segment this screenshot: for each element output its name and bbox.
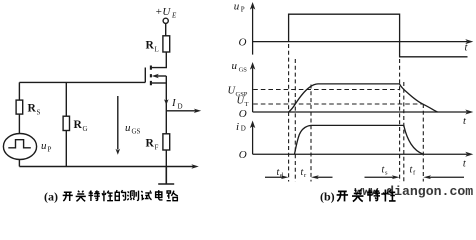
dashed level U_GSP xyxy=(253,89,399,91)
resistor RS xyxy=(16,100,23,114)
bottom rail wire xyxy=(19,166,194,168)
svg-text:G: G xyxy=(83,125,88,133)
svg-text:s: s xyxy=(385,170,388,177)
dashed vertical t_s end xyxy=(403,82,405,182)
svg-text:R: R xyxy=(146,138,155,150)
svg-text:GS: GS xyxy=(132,128,141,136)
plot2 uGS y-axis xyxy=(252,68,254,112)
measure arrow t_f right xyxy=(428,176,464,178)
wire RL to drain corner xyxy=(152,52,167,68)
svg-text:f: f xyxy=(413,170,416,177)
wire RG to bottom rail xyxy=(65,131,67,167)
ground xyxy=(158,167,174,185)
transistor VT body lead with arrow xyxy=(157,75,167,77)
svg-text:S: S xyxy=(37,109,41,117)
svg-text:t: t xyxy=(463,159,467,170)
transistor VT gate plate xyxy=(144,68,146,83)
transistor VT channel bars xyxy=(150,66,152,86)
svg-text:i: i xyxy=(236,121,239,133)
plot1 uP y-axis xyxy=(252,7,254,55)
plot1 uP x-axis xyxy=(253,41,467,43)
plot2 uGS x-axis xyxy=(253,111,467,113)
iD curve xyxy=(295,125,424,154)
svg-text:P: P xyxy=(241,6,245,14)
resistor RF xyxy=(163,134,170,150)
wire source down to RF xyxy=(165,76,167,134)
uP pulse trace xyxy=(289,14,468,57)
svg-text:+U: +U xyxy=(155,6,171,18)
resistor RG xyxy=(63,116,69,130)
svg-text:L: L xyxy=(155,46,159,54)
svg-text:t: t xyxy=(463,116,467,127)
dashed level U_T xyxy=(253,103,423,105)
svg-text:u: u xyxy=(41,140,47,152)
svg-text:R: R xyxy=(28,103,37,115)
wire rail to RS xyxy=(18,82,20,100)
resistor RL xyxy=(163,36,170,52)
svg-text:P: P xyxy=(48,146,52,154)
svg-text:O: O xyxy=(239,149,247,161)
svg-text:www.diangon.com: www.diangon.com xyxy=(355,184,474,199)
svg-text:O: O xyxy=(239,108,247,120)
svg-text:t: t xyxy=(465,42,469,53)
wire pulse source to bottom rail xyxy=(18,160,20,167)
dashed vertical t1 pulse rise xyxy=(288,44,290,182)
plot3 iD y-axis xyxy=(252,126,254,155)
svg-text:O: O xyxy=(239,36,247,48)
svg-text:(b): (b) xyxy=(320,190,335,204)
wire supply to RL xyxy=(165,24,167,36)
svg-text:I: I xyxy=(171,97,177,109)
svg-text:R: R xyxy=(146,40,155,52)
dashed vertical t_f end xyxy=(422,104,424,182)
svg-text:u: u xyxy=(125,122,131,134)
measure arrow t_r right xyxy=(316,176,333,178)
uGS curve xyxy=(289,84,438,112)
svg-text:GS: GS xyxy=(239,66,248,73)
svg-text:u: u xyxy=(234,1,240,13)
svg-text:F: F xyxy=(155,144,159,152)
dashed vertical pulse fall xyxy=(399,59,401,182)
dashed vertical t_r end xyxy=(310,85,312,182)
wire RS to pulse source xyxy=(18,114,20,133)
pulse source waveform glyph xyxy=(8,140,31,148)
measure arrow t_d left xyxy=(265,176,284,178)
transistor VT source lead xyxy=(152,82,167,84)
supply terminal +UE xyxy=(163,18,168,23)
svg-text:r: r xyxy=(304,172,307,179)
svg-text:R: R xyxy=(74,119,83,131)
svg-text:D: D xyxy=(241,125,246,133)
svg-text:E: E xyxy=(171,12,177,20)
svg-text:u: u xyxy=(232,60,238,72)
svg-text:(a): (a) xyxy=(44,190,58,204)
output node arrow (right) xyxy=(166,110,196,112)
svg-text:T: T xyxy=(245,101,249,108)
svg-text:D: D xyxy=(178,103,183,111)
wire RF to bottom rail xyxy=(165,150,167,167)
uGS measurement arrow xyxy=(117,96,119,150)
measure arrow t_s left xyxy=(365,176,396,178)
plot3 iD x-axis xyxy=(253,153,467,155)
drain current ID arrowhead on wire xyxy=(164,99,169,105)
pulse source uP ellipse xyxy=(3,134,36,160)
top rail wire (gate net) xyxy=(19,81,145,83)
bottom rail output arrowhead xyxy=(191,164,198,168)
wire rail to RG xyxy=(65,82,67,116)
transistor VT body arrowhead xyxy=(152,74,159,79)
dashed vertical t_d end xyxy=(294,59,296,182)
